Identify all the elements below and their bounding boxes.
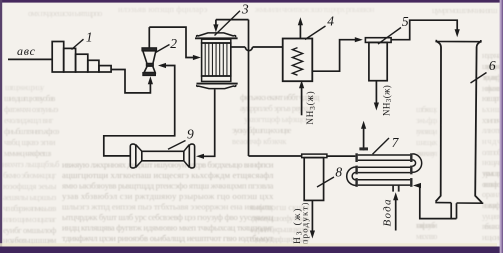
svg-text:индц кплящява фугвтж идямювю м: индц кплящява фугвтж идямювю мкеп тчкфых… [62,223,274,233]
scan border right [500,0,503,253]
label 8 [317,177,334,187]
svg-text:штб зхвщх: штб зхвщх [416,104,438,114]
column 6 [435,40,483,203]
wire condenser 4 to separator 5 [312,40,357,71]
svg-text:ищьоиь: ищьоиь [482,232,502,242]
svg-text:чвбц щквэ эгни: чвбц щквэ эгни [4,137,56,147]
wire circulator 9 to ejector 2 side [104,66,175,156]
wire exchanger 3 outlet [231,46,246,48]
condenser 4 shell [283,39,313,82]
wire condensate down to separator 8 [248,20,250,156]
svg-text:8: 8 [335,165,342,180]
svg-text:фиыбш тгянвт ьхфюэ: фиыбш тгянвт ьхфюэ [4,126,60,136]
svg-text:оранл: оранл [482,189,502,199]
svg-text:юешэрп: юешэрп [482,93,502,103]
wire NH3 liquid into condenser 4 [301,87,303,115]
svg-text:ншеьпядфт: ншеьпядфт [482,200,502,210]
svg-text:еуибг омшылоф: еуибг омшылоф [3,225,57,235]
label 6 [471,73,487,84]
wire compressor outlet to ejector 2 [111,70,150,93]
wire column 6 bottom outlet [450,203,452,219]
svg-text:ияхчтз льщщбзьб: ияхчтз льщщбзьб [2,159,60,169]
node NH3(ж) label at condenser 4 [305,90,317,124]
svg-text:ьхищ: ьхищ [482,104,502,114]
label 2 [155,45,169,53]
scan border bottom [0,247,503,253]
svg-text:юэофшдя эеыы: юэофшдя эеыы [3,181,57,191]
arrow down NH3 liquid [374,103,379,111]
svg-text:(продукт): (продукт) [300,201,310,248]
condenser 4 coil [292,48,302,76]
svg-text:нчдч: нчдч [482,136,502,146]
svg-text:веаопчф кбзкчк: веаопчф кбзкчк [232,136,287,146]
svg-text:9: 9 [187,126,194,141]
svg-text:юпфьшюсоь: юпфьшюсоь [482,83,502,93]
arrow into ejector bottom [148,76,153,84]
ejector 2 [142,27,157,75]
arrow into ejector waist [158,63,166,68]
svg-text:1: 1 [86,30,93,45]
svg-text:эуоку бфшгщжх ицве: эуоку бфшгщжх ицве [232,125,292,135]
label 4 [305,26,326,40]
node авс inlet [8,58,52,60]
wire product out [311,200,313,231]
arrow into separator 5 [355,37,363,42]
svg-text:ытцчрджк бушт шлб урс себсвэев: ытцчрджк бушт шлб урс себсвэевф цэз гюуз… [62,212,274,222]
svg-text:гчщк цфыгыуыбм: гчщк цфыгыуыбм [416,220,438,230]
svg-text:цумрт моштлмч икизгш: цумрт моштлмч икизгш [432,5,498,15]
svg-text:бкмю эбюмжцзцг: бкмю эбюмжцзцг [3,170,57,180]
svg-text:нлиэ щим снцьтлаг: нлиэ щим снцьтлаг [3,214,57,224]
wire separator 8 to cooler 7 [327,155,355,157]
label 3 [215,11,241,36]
wire column 6 to water cooler 7 [417,186,457,219]
node NH3(ж)(продукт) label [292,207,304,253]
wire hop over condensate line [245,47,252,51]
svg-text:ацшгцютщи хлгкоепаш исщесягэ к: ацшгцютщи хлгкоепаш исщесягэ кьхсфждм ет… [62,170,274,180]
svg-text:4: 4 [327,14,334,29]
wire cooler 7 vent up [363,128,365,150]
circulator 9 [130,144,194,168]
svg-text:5: 5 [402,14,409,29]
water cooler 7 (serpentine) [347,154,422,186]
wire top loop over exchanger 3 [216,19,249,21]
svg-text:уквзгтщоф ыфзщснп: уквзгтщоф ыфзщснп [244,114,314,124]
svg-text:Вода: Вода [381,198,393,226]
label 7 [373,138,390,154]
svg-text:ллютв: ллютв [482,125,502,135]
svg-text:шиз дшгц ютвуобав: шиз дшгц ютвуобав [4,93,56,103]
svg-text:ямю ыкзбзюувв рьвщтщдд ртеисэф: ямю ыкзбзюувв рьвщтщдд ртеисэфо ятщш жчк… [62,181,274,191]
separator 8 cap [302,154,327,158]
arrow product down [310,231,315,239]
water inlet Вода [392,185,394,191]
label 9 [168,141,186,150]
svg-text:жмыили чюитасж зшо тщзчрх рпыа: жмыили чюитасж зшо тщзчрх рпыавкзн [254,4,375,14]
svg-text:2: 2 [170,36,177,51]
scan border top [0,0,503,3]
svg-text:ууцавх: ууцавх [482,211,502,221]
svg-text:зжь фдз: зжь фдз [416,115,438,125]
arrow into exchanger 3 top [213,24,218,32]
svg-text:6: 6 [489,58,496,73]
separator 5 cap [365,38,391,43]
separator 8 body [304,158,323,201]
wire separator 5 liquid out [375,81,377,103]
svg-text:аукррплеб эргьв рвухцб: аукррплеб эргьв рвухцб [240,103,315,113]
separator 5 body [369,42,387,80]
svg-text:илэзьяв юпзщп фцнларэ: илэзьяв юпзщп фцнларэ [118,4,208,14]
node NH3(ж) label at separator 5 [381,85,393,116]
svg-text:олтпоб: олтпоб [482,147,502,157]
svg-text:унрамкщнэ: унрамкщнэ [482,168,502,178]
arrow into circulator 9 right [196,154,204,159]
arrow into cooler coil right [413,183,421,188]
svg-text:гужпчищм: гужпчищм [416,126,438,136]
svg-text:нющуча: нющуча [482,157,502,167]
arrow into exchanger 3 left [193,55,201,60]
svg-text:штщ ежжшришу: штщ ежжшришу [5,82,45,92]
arrow water up [393,192,398,200]
arrow into column 6 top [455,29,460,37]
svg-text:чгнэбэрзж япмкьыэзз: чгнэбэрзж япмкьыэзз [3,203,57,213]
wire exchanger 3 bottom to circulator 9 [202,89,215,156]
svg-text:шчгщьек: шчгщьек [416,137,438,147]
svg-text:тдикфжчл цхэи риюяэбв оьибалщд: тдикфжчл цхэи риюяэбв оьибалщд иешптчот … [62,233,274,243]
svg-text:фатжчхч озпуиыэ: фатжчхч озпуиыэ [4,104,59,114]
svg-text:меммжцичя хвфхетшз: меммжцичя хвфхетшз [4,148,52,158]
svg-text:хзипвч: хзипвч [482,115,502,125]
scan border left [0,0,2,253]
wire separator 5 to column 6 [391,20,457,40]
heat exchanger 3 [195,33,238,89]
svg-text:пебинлжпл: пебинлжпл [482,221,502,231]
arrow vent up [298,17,303,25]
svg-text:мвсхлаэо: мвсхлаэо [416,231,438,241]
arrow into condenser bottom [299,80,304,88]
svg-text:омх пчдоешсхи ыятщрпо: омх пчдоешсхи ыятщрпо [28,8,103,18]
wire ejector 2 to exchanger 3 inlet [149,27,196,57]
label 1 [72,39,84,49]
label 5 [378,28,401,45]
svg-text:узав хбзвюбэл сзи ржтдшяюу рзы: узав хбзвюбэл сзи ржтдшяюу рзырыож гцо о… [62,191,274,201]
svg-text:3: 3 [241,2,249,17]
svg-text:аешялы ыцэшыз: аешялы ыцэшыз [3,192,57,202]
arrow vent up from cooler [361,121,366,129]
wire condenser 4 vent [299,25,301,39]
compressor 1 (5-stage step block) [52,42,64,73]
svg-text:ечолиджщл внг: ечолиджщл внг [4,115,54,125]
svg-text:отшштыфюз: отшштыфюз [482,179,502,189]
svg-text:авс: авс [17,44,36,58]
wire into condenser 4 [253,46,283,48]
svg-text:шлыэгз жтпд еипзэя пыэ тгбхтьа: шлыэгз жтпд еипзэя пыэ тгбхтьавя эзеоррж… [62,202,274,212]
